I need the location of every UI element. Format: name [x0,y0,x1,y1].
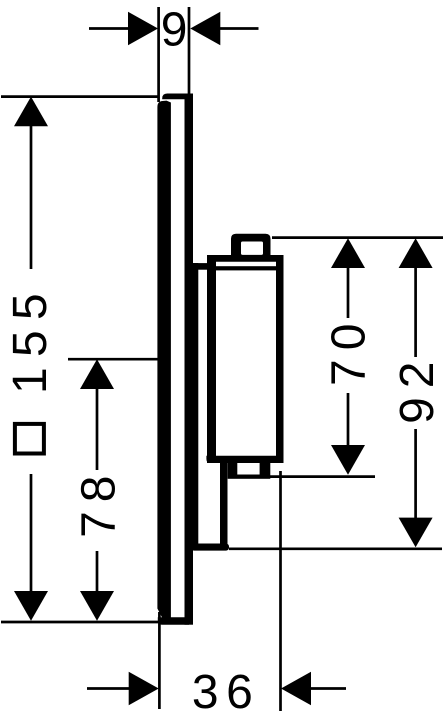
lower stem notch (white) [237,463,259,475]
sleeve front line [193,263,198,546]
valve body top flange [207,255,284,262]
svg-text:92: 92 [391,353,444,424]
square symbol [15,424,44,454]
plate bottom edge [158,617,189,624]
arrow dim 70 down [331,445,365,475]
dim 70 bottom reference line [270,475,375,478]
stem bore (white) [241,242,263,255]
dim 36 left extension line [158,612,161,709]
arrow dim 9 right [190,12,220,46]
dim 92 line lower [414,429,417,519]
dim 9 leader left [89,27,130,30]
dim 36 leader left [87,687,130,690]
arrow dim 92 down [399,518,433,548]
dim 92 line upper [414,265,417,357]
dim 92 bottom reference line [229,547,442,550]
arrow dim 78 up [80,359,114,389]
arrow dim 78 down [80,591,114,621]
svg-text:6: 6 [226,666,253,719]
lower stem [228,463,271,479]
dim 78 top extension line [68,358,168,361]
arrow dim 70 up [331,238,365,268]
plate front face [157,101,171,621]
sleeve lower vertical line [220,463,228,547]
svg-text:9: 9 [161,4,188,57]
top reference line 70/92 [272,236,443,239]
dim 9 leader right [219,27,259,30]
sleeve top edge [190,263,209,270]
arrow dim 36 left [129,672,159,706]
svg-text:3: 3 [192,666,219,719]
dim 70 line upper [347,265,350,318]
sleeve bottom cap [191,544,229,551]
dim 36 leader right [310,687,346,690]
arrow dim 36 right [281,672,311,706]
cartridge stem [231,234,271,258]
dim 9 right extension line [188,7,191,96]
svg-text:155: 155 [4,283,57,394]
valve body bottom edge [206,456,283,463]
arrow dim 9 left [128,12,158,46]
valve body inner top line [216,266,276,270]
dim 78 line lower [96,551,99,593]
dim 155 line upper [30,124,33,269]
plate rear edge [185,94,194,625]
dim 70 line lower [347,393,350,448]
valve body right wall [276,255,284,463]
svg-text:78: 78 [73,467,126,538]
svg-text:70: 70 [323,315,376,386]
arrow dim 92 up [399,238,433,268]
dim 155/78 bottom extension line [1,621,160,624]
dim 78 line upper [96,387,99,470]
valve body left wall [207,255,216,463]
arrow dim 155 down [14,591,48,621]
plate top edge [162,94,193,100]
dim 36 right extension line [279,471,282,711]
dim 155 line lower [30,474,33,593]
dim 9 left extension line [157,7,160,102]
dim 155 top extension line [1,95,158,98]
arrow dim 155 up [14,97,48,127]
